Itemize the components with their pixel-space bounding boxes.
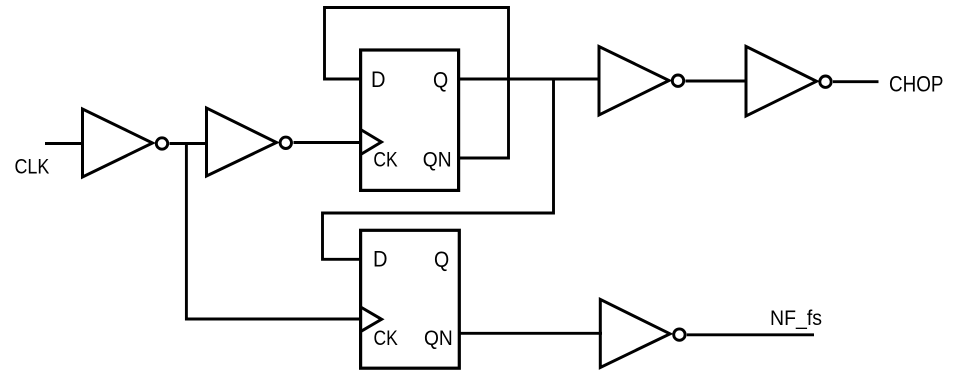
svg-text:QN: QN: [424, 326, 453, 350]
wire feedback QN to D (top loop): [325, 8, 509, 159]
D flip-flop U3 (top): [361, 50, 459, 190]
wire U1 output to U2 input: [170, 142, 209, 145]
wire junction Q down to bottom DFF D: [323, 79, 554, 259]
svg-text:CK: CK: [374, 326, 398, 350]
inverter U5: [746, 46, 831, 116]
svg-text:CHOP: CHOP: [889, 72, 944, 97]
D flip-flop U6 (bottom): [361, 230, 460, 368]
wire U5 output to CHOP: [833, 80, 879, 83]
wire U4 output to U5 input: [686, 80, 748, 83]
inverter U4: [599, 47, 684, 116]
inverter U2: [207, 108, 292, 176]
svg-text:D: D: [373, 247, 388, 272]
inverter U1: [83, 109, 168, 177]
svg-text:CK: CK: [373, 148, 397, 172]
svg-text:Q: Q: [434, 247, 449, 272]
inverter U7: [600, 299, 685, 367]
svg-text:D: D: [371, 67, 386, 92]
wire U7 output to NF_fs: [687, 333, 814, 336]
wire Q output to inverter U4: [459, 78, 601, 81]
wire CLK input: [45, 142, 84, 145]
svg-text:Q: Q: [433, 68, 448, 93]
svg-text:NF_fs: NF_fs: [770, 306, 822, 330]
wire junction down to bottom CK: [186, 144, 362, 320]
svg-text:QN: QN: [423, 148, 452, 172]
svg-text:CLK: CLK: [15, 155, 50, 179]
wire U2 output to top DFF CK: [294, 141, 363, 144]
wire bottom QN to inverter U7: [460, 332, 603, 335]
